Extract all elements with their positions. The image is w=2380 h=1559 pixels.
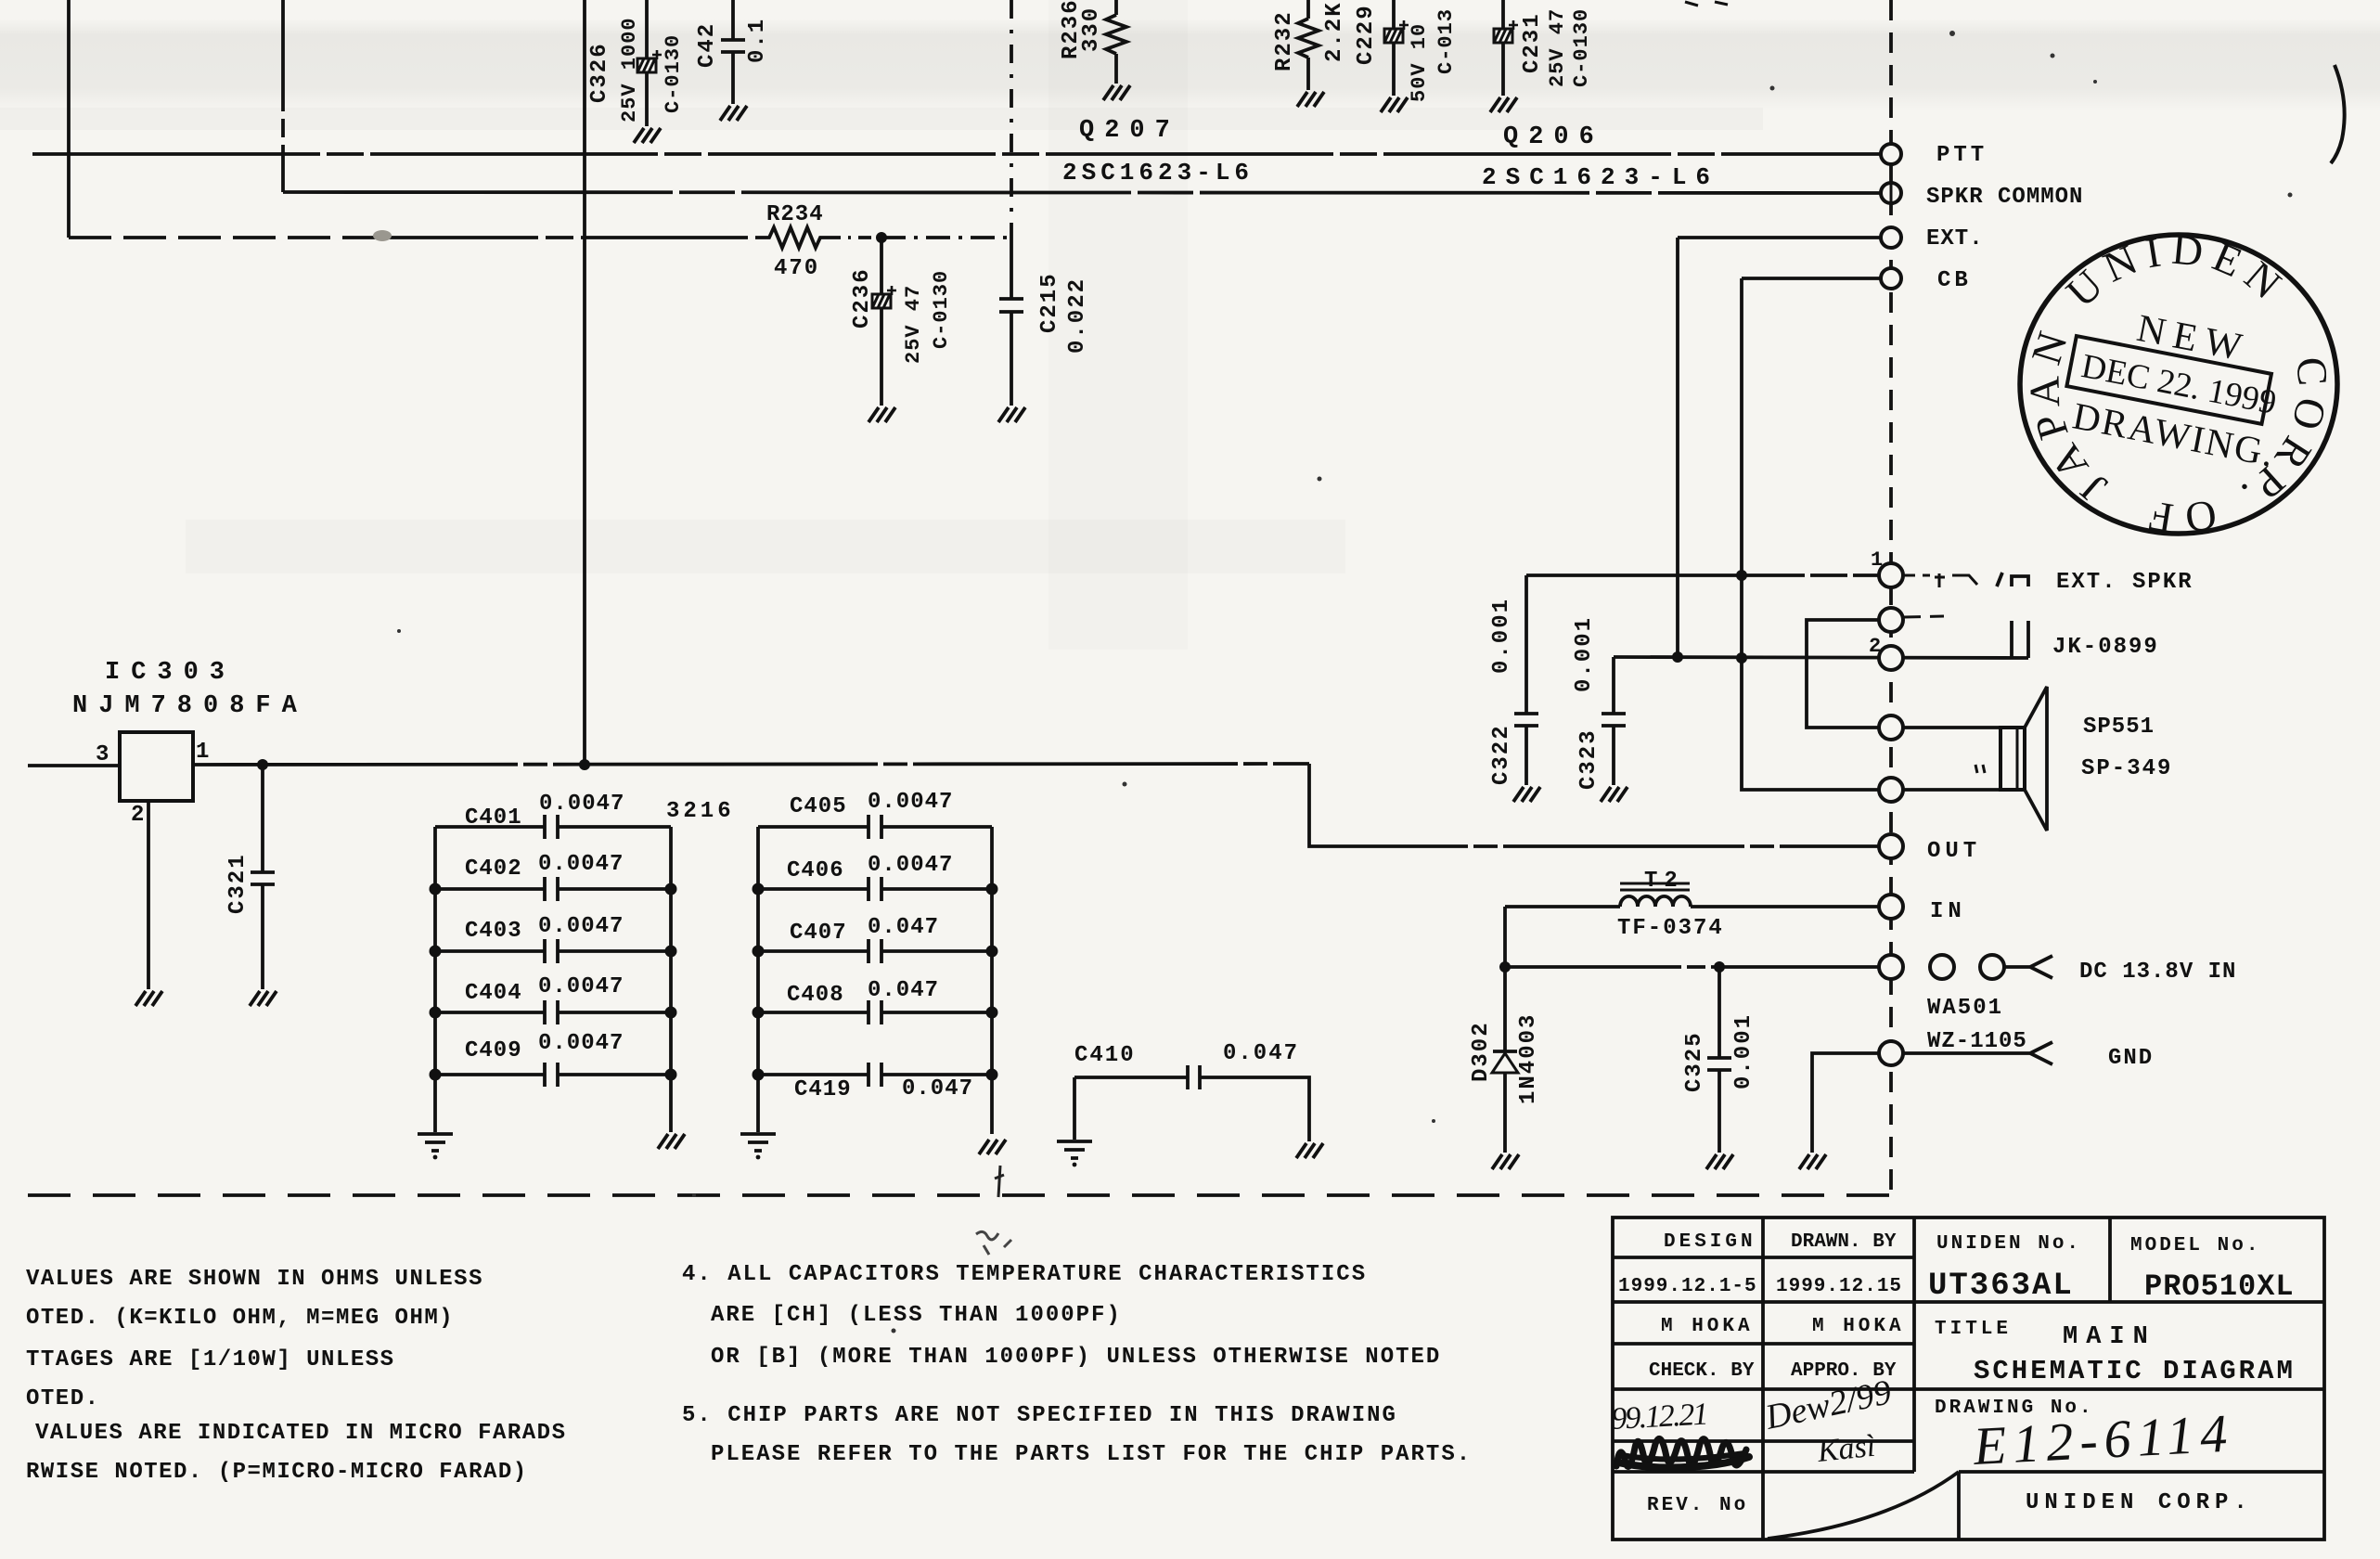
- svg-text:330: 330: [1079, 6, 1104, 52]
- ground bank1 right: [658, 1134, 685, 1149]
- svg-text:0.0047: 0.0047: [868, 790, 953, 815]
- svg-text:0.0047: 0.0047: [868, 853, 953, 878]
- notes text bottom left: [26, 1267, 566, 1485]
- capacitor C42: [731, 0, 735, 104]
- svg-text:Kasì: Kasì: [1815, 1429, 1877, 1469]
- handwritten entries: [1610, 1372, 2234, 1476]
- wire: IC303 output line to step corner: [193, 764, 1309, 765]
- svg-text:EXT.: EXT.: [1926, 226, 1984, 251]
- capacitor C325: [1717, 967, 1721, 1153]
- ground (earth) bank2 left: [740, 1134, 776, 1159]
- svg-text:2.2K: 2.2K: [1322, 1, 1347, 62]
- wire: vertical drop to SPKR COMMON corner x=305: [281, 0, 285, 192]
- svg-text:C419: C419: [794, 1077, 852, 1102]
- speaker SP551 symbol: [2000, 728, 2025, 790]
- ground: [720, 106, 747, 121]
- stray pen mark top right (decorative): [2331, 65, 2345, 163]
- ground: [250, 991, 277, 1006]
- svg-text:M HOKA: M HOKA: [1661, 1316, 1754, 1337]
- capacitor bank 1 rails: [435, 827, 671, 1132]
- ground: [1706, 1154, 1733, 1169]
- wire: EXT. line right segment to terminal: [1678, 236, 1882, 239]
- svg-text:C-0130: C-0130: [1570, 8, 1593, 87]
- wire: speaker top lead: [1902, 726, 2000, 729]
- scan specks (decorative): [397, 31, 2293, 1334]
- ground: [634, 128, 661, 143]
- svg-text:C236: C236: [850, 267, 875, 329]
- capacitor C402: [435, 887, 671, 891]
- svg-text:0.001: 0.001: [1489, 598, 1514, 674]
- svg-text:C408: C408: [787, 983, 844, 1008]
- svg-text:Q207: Q207: [1079, 117, 1180, 145]
- svg-text:1999.12.1-5: 1999.12.1-5: [1618, 1276, 1757, 1297]
- svg-text:EXT. SPKR: EXT. SPKR: [2056, 570, 2193, 595]
- wire: PTT line y=166: [32, 152, 1882, 156]
- capacitor C403: [435, 949, 671, 953]
- node: [1672, 651, 1683, 663]
- node: junction C321: [257, 759, 268, 770]
- svg-text:2SC1623-L6: 2SC1623-L6: [1482, 163, 1719, 191]
- capacitor C326 (electrolytic): [645, 0, 649, 126]
- svg-text:CHECK. BY: CHECK. BY: [1649, 1360, 1755, 1382]
- svg-text:JK-0899: JK-0899: [2052, 635, 2159, 660]
- svg-text:SP-349: SP-349: [2081, 756, 2172, 781]
- terminal jack 2: [1879, 646, 1903, 670]
- node: [1714, 961, 1725, 973]
- node: CB/EXT.SPKR junction: [1736, 570, 1747, 581]
- EXT SPKR plug symbol: [1904, 574, 1930, 577]
- svg-text:2SC1623-L6: 2SC1623-L6: [1062, 159, 1254, 187]
- svg-text:0.0047: 0.0047: [538, 974, 624, 999]
- svg-text:C406: C406: [787, 858, 844, 883]
- wire: speaker bottom lead: [1902, 788, 2000, 792]
- svg-text:Q206: Q206: [1503, 123, 1604, 151]
- svg-text:UNIDEN CORP.: UNIDEN CORP.: [2026, 1490, 2253, 1515]
- svg-text:PLEASE REFER TO THE PARTS LIST: PLEASE REFER TO THE PARTS LIST FOR THE C…: [711, 1442, 1472, 1467]
- notes text items 4 and 5: [682, 1262, 1472, 1467]
- svg-text:25V 47: 25V 47: [1546, 8, 1569, 87]
- svg-text:C407: C407: [790, 921, 847, 946]
- svg-text:0.001: 0.001: [1731, 1013, 1756, 1089]
- ground: [1513, 787, 1540, 802]
- svg-text:OTED. (K=KILO OHM, M=MEG OHM): OTED. (K=KILO OHM, M=MEG OHM): [26, 1306, 454, 1331]
- jack JK-0899 symbol bars: [2012, 621, 2028, 658]
- svg-text:1999.12.15: 1999.12.15: [1776, 1276, 1902, 1297]
- svg-text:C403: C403: [465, 919, 522, 944]
- wire: step down to OUT line: [1309, 764, 1882, 846]
- wire: EXT. drop x=1808: [1676, 238, 1679, 657]
- ground (earth) C410 left: [1057, 1141, 1092, 1166]
- terminal GND: [1879, 1041, 1903, 1065]
- ground (earth style) bank1 left: [418, 1134, 453, 1159]
- svg-text:0.047: 0.047: [868, 978, 939, 1003]
- wire + arrow DC: [2004, 956, 2052, 978]
- svg-text:WA501: WA501: [1927, 996, 2003, 1021]
- terminal EXT.: [1881, 227, 1901, 248]
- svg-text:0.047: 0.047: [1223, 1041, 1299, 1066]
- svg-text:R232: R232: [1272, 10, 1297, 71]
- capacitor C231 (electrolytic): [1501, 0, 1505, 96]
- capacitor C409: [435, 1073, 671, 1076]
- ground: [1799, 1154, 1826, 1169]
- svg-text:DESIGN: DESIGN: [1664, 1231, 1756, 1253]
- junction: [876, 232, 887, 243]
- svg-text:OTED.: OTED.: [26, 1386, 100, 1411]
- svg-text:RWISE NOTED. (P=MICRO-MICRO F: RWISE NOTED. (P=MICRO-MICRO FARAD): [26, 1460, 528, 1485]
- svg-text:0.1: 0.1: [745, 18, 770, 63]
- svg-text:C404: C404: [465, 981, 522, 1006]
- wire: long vertical x=630 from top to IC output line: [583, 0, 586, 765]
- svg-text:WZ-1105: WZ-1105: [1927, 1029, 2027, 1054]
- capacitor C405: [758, 825, 992, 829]
- svg-text:OUT: OUT: [1927, 839, 1981, 864]
- wire: DC 13.8V line y=1042: [1505, 965, 1882, 969]
- svg-text:1: 1: [196, 740, 209, 765]
- svg-text:5. CHIP PARTS ARE NOT SPECIFIE: 5. CHIP PARTS ARE NOT SPECIFIED IN THIS …: [682, 1403, 1397, 1428]
- svg-text:TITLE: TITLE: [1935, 1319, 2012, 1340]
- wire: OUT line handled above; transformer T2 line IN y=977: [1505, 905, 1620, 908]
- svg-text:NJM7808FA: NJM7808FA: [72, 692, 308, 720]
- ground: [1103, 85, 1130, 100]
- svg-text:SCHEMATIC DIAGRAM: SCHEMATIC DIAGRAM: [1974, 1356, 2296, 1386]
- svg-text:IC303: IC303: [105, 659, 236, 687]
- svg-text:C323: C323: [1576, 728, 1602, 790]
- ground: [1492, 1154, 1519, 1169]
- svg-text:DC 13.8V IN: DC 13.8V IN: [2079, 960, 2236, 985]
- svg-text:UNIDEN No.: UNIDEN No.: [1936, 1233, 2081, 1255]
- resistor R236: [1106, 0, 1126, 84]
- svg-text:0.0047: 0.0047: [538, 914, 624, 939]
- node: [1499, 961, 1511, 973]
- wire: IC303 input from left: [28, 764, 120, 767]
- ground: [135, 991, 162, 1006]
- node: CB/jack2 junction: [1736, 652, 1747, 664]
- svg-text:R234: R234: [766, 202, 824, 227]
- svg-text:UT363AL: UT363AL: [1928, 1269, 2074, 1304]
- capacitor bank 2 rails: [758, 827, 992, 1134]
- capacitor C410: [1074, 1077, 1309, 1141]
- svg-text:D302: D302: [1469, 1021, 1494, 1082]
- wire: EXT.SPKR line y=620 from C322 top: [1526, 573, 1882, 577]
- svg-text:C231: C231: [1520, 12, 1545, 73]
- svg-text:M HOKA: M HOKA: [1812, 1316, 1905, 1337]
- svg-text:C322: C322: [1489, 724, 1514, 785]
- svg-text:DRAWN. BY: DRAWN. BY: [1791, 1231, 1897, 1253]
- wire: left vertical bus x=74: [67, 0, 71, 238]
- svg-text:3216: 3216: [666, 799, 735, 824]
- svg-text:C405: C405: [790, 794, 847, 819]
- svg-text:CB: CB: [1937, 268, 1972, 293]
- svg-text:0.047: 0.047: [868, 915, 939, 940]
- capacitor C229 (electrolytic): [1392, 0, 1396, 96]
- wire: IC303 pin2 to ground: [147, 801, 150, 989]
- svg-text:C215: C215: [1037, 272, 1062, 333]
- wire: CB drop x=1877 and speaker-bottom feed: [1742, 278, 1882, 790]
- terminal PTT: [1881, 144, 1901, 164]
- svg-text:MODEL No.: MODEL No.: [2130, 1235, 2260, 1256]
- wire: dashes right of jack pin1 terminal: [1904, 616, 1944, 617]
- diode D302 1N4003: [1503, 967, 1507, 1153]
- svg-text:T2: T2: [1644, 869, 1684, 894]
- ground: [1297, 92, 1324, 107]
- rubber stamp NEW DRAWING: [2020, 225, 2337, 544]
- tick marks near speaker (decorative): [1975, 765, 1985, 773]
- svg-text:C-0130: C-0130: [930, 270, 953, 349]
- svg-text:SP551: SP551: [2083, 715, 2155, 740]
- capacitor C419: [758, 1073, 992, 1076]
- svg-text:MAIN: MAIN: [2063, 1323, 2156, 1351]
- wire: EXT / R234 line y=256 (dashed): [69, 236, 371, 239]
- capacitor C401: [435, 825, 671, 829]
- capacitor C215: [1010, 238, 1013, 406]
- ground bank2 right: [979, 1140, 1006, 1154]
- svg-text:25V 1000: 25V 1000: [618, 17, 641, 122]
- svg-text:25V 47: 25V 47: [902, 285, 925, 364]
- svg-text:C321: C321: [225, 853, 251, 914]
- wire: SPKR COMMON line y=207: [283, 192, 1882, 193]
- ground: [1490, 97, 1517, 112]
- svg-text:C326: C326: [587, 42, 612, 103]
- svg-text:0.0047: 0.0047: [538, 1031, 624, 1056]
- svg-text:0.001: 0.001: [1572, 616, 1597, 692]
- capacitor C407: [758, 949, 992, 953]
- capacitor C408: [758, 1011, 992, 1014]
- svg-text:50V 10: 50V 10: [1408, 23, 1431, 102]
- transformer T2 (TF-0374): [1620, 896, 1691, 907]
- capacitor C322: [1524, 575, 1528, 785]
- svg-text:GND: GND: [2108, 1046, 2154, 1071]
- gray smudge on line (decorative): [373, 230, 392, 241]
- wire: jack pin1 loop to speaker top: [1807, 620, 1882, 728]
- op-amp U1? no: regulator IC303 box: [120, 732, 193, 801]
- ground: [1381, 97, 1408, 112]
- terminal jack 1: [1879, 608, 1903, 632]
- svg-text:PTT: PTT: [1936, 143, 1988, 168]
- svg-text:C-013: C-013: [1434, 8, 1458, 74]
- svg-text:C229: C229: [1354, 4, 1379, 65]
- wire: coil to IN terminal: [1691, 905, 1882, 908]
- terminal EXT.SPKR: [1879, 563, 1903, 587]
- svg-text:1N4003: 1N4003: [1516, 1013, 1541, 1104]
- svg-text:C410: C410: [1074, 1043, 1136, 1068]
- dashed bus x=2038: [1889, 0, 1893, 1195]
- svg-text:0.0047: 0.0047: [539, 792, 624, 817]
- ground: [998, 407, 1025, 422]
- svg-text:0.022: 0.022: [1065, 277, 1090, 354]
- terminal IN: [1879, 895, 1903, 919]
- wire: dashed vertical x=1090 from top to C215: [1010, 0, 1013, 238]
- svg-text:OR [B] (MORE THAN 1000PF) UNLE: OR [B] (MORE THAN 1000PF) UNLESS OTHERWI…: [711, 1345, 1441, 1370]
- dashed boundary bottom y=1288: [28, 1193, 1891, 1197]
- svg-text:C42: C42: [695, 22, 720, 68]
- svg-text:VALUES ARE SHOWN IN OHMS UNLES: VALUES ARE SHOWN IN OHMS UNLESS: [26, 1267, 483, 1292]
- svg-text:0.0047: 0.0047: [538, 852, 624, 877]
- svg-text:2: 2: [131, 803, 144, 828]
- svg-text:99.12.21: 99.12.21: [1610, 1398, 1707, 1437]
- terminal speaker -: [1879, 778, 1903, 802]
- svg-text:IN: IN: [1930, 899, 1966, 924]
- ground C410 right: [1296, 1143, 1323, 1158]
- svg-text:C402: C402: [465, 857, 522, 882]
- node: junction at x=630 on output line: [579, 759, 590, 770]
- svg-text:4. ALL CAPACITORS TEMPERATURE: 4. ALL CAPACITORS TEMPERATURE CHARACTERI…: [682, 1262, 1367, 1287]
- svg-text:VALUES ARE INDICATED IN MICRO: VALUES ARE INDICATED IN MICRO FARADS: [35, 1421, 566, 1446]
- svg-text:REV. No: REV. No: [1647, 1495, 1748, 1516]
- svg-text:470: 470: [774, 256, 819, 281]
- capacitor C406: [758, 887, 992, 891]
- resistor R234: [761, 227, 828, 248]
- ground: [868, 407, 895, 422]
- svg-text:C409: C409: [465, 1038, 522, 1063]
- svg-text:C-0130: C-0130: [662, 34, 685, 113]
- wire + arrow GND: [1903, 1042, 2052, 1064]
- connector circles DC: [1930, 955, 1954, 979]
- svg-text:TTAGES ARE [1/10W] UNLESS: TTAGES ARE [1/10W] UNLESS: [26, 1347, 395, 1372]
- svg-text:SPKR COMMON: SPKR COMMON: [1926, 185, 2083, 210]
- svg-text:TF-0374: TF-0374: [1617, 916, 1724, 941]
- title block table: [1613, 1218, 2324, 1540]
- capacitor C321: [261, 765, 264, 989]
- terminal OUT: [1879, 834, 1903, 858]
- svg-text:3: 3: [96, 742, 109, 767]
- terminal DC: [1879, 955, 1903, 979]
- terminal SPKR COMMON: [1881, 183, 1901, 203]
- svg-text:C325: C325: [1682, 1031, 1707, 1092]
- svg-text:C401: C401: [465, 805, 522, 831]
- capacitor C404: [435, 1011, 671, 1014]
- svg-text:PRO510XL: PRO510XL: [2144, 1269, 2295, 1304]
- svg-text:0.047: 0.047: [902, 1076, 973, 1102]
- resistor R232: [1298, 0, 1319, 90]
- wire: coil left drop to DC line: [1503, 907, 1507, 967]
- ground: [1601, 787, 1627, 802]
- terminal speaker +: [1879, 715, 1903, 740]
- wire: jack pin2 line y=708 from C323 top: [1614, 657, 2028, 658]
- wire: GND line and drop: [1812, 1053, 1882, 1153]
- small smudge near boundary (decorative): [995, 1166, 1004, 1197]
- wire: CB line right segment: [1742, 277, 1882, 280]
- terminal CB: [1881, 268, 1901, 289]
- capacitor C323: [1612, 657, 1615, 785]
- svg-text:ARE [CH] (LESS THAN 1000PF): ARE [CH] (LESS THAN 1000PF): [711, 1303, 1122, 1328]
